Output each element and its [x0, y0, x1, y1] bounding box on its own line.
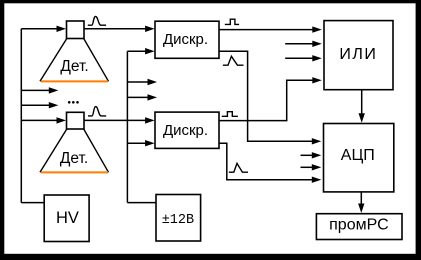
arrowhead ADC to PC down — [358, 204, 364, 214]
arrowhead OR in1 — [312, 26, 322, 32]
wire detector1 to discr1 — [84, 28, 147, 30]
analog pulse icon at discr1 analog output — [223, 56, 244, 65]
industrial PC box — [316, 214, 402, 240]
arrowhead ADC in2 — [312, 152, 322, 158]
wire bus to detector 2 — [21, 119, 58, 121]
wire bus to discr2 — [127, 142, 146, 144]
arrowhead OR in2 — [312, 41, 322, 47]
wire stub channel d — [127, 96, 149, 98]
detector2 cone right side — [84, 129, 109, 172]
wire +-12V bus to box — [127, 202, 156, 204]
discriminator 1 box — [155, 21, 219, 58]
ellipsis dots between detectors — [68, 101, 79, 104]
analog pulse icon at detector2 — [88, 107, 106, 116]
detector1 cone left side — [40, 39, 67, 82]
arrowhead stub b — [49, 102, 59, 108]
wire discr2 digital out to OR — [219, 80, 314, 120]
arrowhead stub c — [148, 79, 158, 85]
arrowhead stub a — [49, 87, 59, 93]
svg-text:АЦП: АЦП — [341, 147, 375, 164]
arrowhead OR in4 — [312, 77, 322, 83]
wire stub OR input b — [285, 57, 313, 59]
wire stub channel c — [127, 81, 149, 83]
wire bus to discr1 — [127, 50, 146, 52]
+-12V box — [156, 195, 201, 242]
wire stub ADC input b — [301, 166, 315, 168]
arrowhead into detector2 — [57, 117, 67, 123]
wire OR to ADC — [361, 90, 363, 114]
svg-text:±12В: ±12В — [162, 213, 194, 228]
arrowhead into detector1 — [57, 26, 67, 32]
svg-text:ИЛИ: ИЛИ — [339, 46, 377, 63]
arrowhead into discr2 in1 — [145, 117, 155, 123]
border frame left — [0, 0, 4, 260]
wire discr2 analog out to ADC — [219, 143, 315, 180]
arrowhead into discr2 in2 — [145, 140, 155, 146]
border frame bottom — [0, 254, 421, 260]
wire stub ADC input a — [301, 154, 315, 156]
arrowhead into discr1 in2 — [145, 48, 155, 54]
wire stub OR input a — [285, 43, 313, 45]
arrowhead OR to ADC down — [359, 113, 365, 123]
detector1 scintillator orange face — [41, 80, 108, 82]
arrowhead ADC in4 — [312, 177, 322, 183]
wire ADC to PC — [360, 192, 362, 204]
wire discr1 analog out to ADC — [219, 51, 315, 141]
svg-text:Дискр.: Дискр. — [163, 31, 208, 48]
wire bus to detector 1 — [21, 28, 58, 30]
OR box — [324, 21, 393, 90]
analog pulse icon at discr2 analog output — [229, 163, 248, 172]
wire stub channel b — [21, 104, 50, 106]
HV box — [44, 195, 89, 242]
discriminator 2 box — [155, 112, 219, 148]
arrowhead ADC in1 — [312, 138, 322, 144]
wire HV bus to HV box — [21, 202, 44, 204]
svg-text:Дискр.: Дискр. — [163, 122, 208, 139]
detector2 PMT square — [67, 112, 85, 129]
wire HV bus vertical — [20, 29, 22, 203]
svg-text:HV: HV — [56, 209, 79, 227]
wire stub channel a — [21, 89, 50, 91]
border frame right — [416, 0, 421, 260]
wire discr1 digital out to OR — [219, 29, 314, 31]
digital pulse icon at discr2 output — [222, 112, 238, 117]
wire detector2 to discr2 — [84, 119, 147, 121]
detector2 cone left side — [40, 129, 67, 172]
detector2 scintillator orange face — [41, 171, 108, 173]
arrowhead OR in3 — [312, 55, 322, 61]
detector1 cone right side — [84, 39, 109, 82]
arrowhead into discr1 in1 — [145, 26, 155, 32]
analog pulse icon at detector1 — [88, 16, 106, 25]
svg-text:Дет.: Дет. — [60, 150, 88, 167]
svg-text:промРС: промРС — [329, 217, 389, 234]
arrowhead ADC in3 — [312, 164, 322, 170]
wire +-12V bus vertical — [126, 51, 128, 202]
arrowhead stub d — [148, 94, 158, 100]
detector1 PMT square — [67, 21, 85, 39]
border frame top — [0, 0, 421, 3]
svg-text:Дет.: Дет. — [60, 58, 88, 75]
digital pulse icon at discr1 output — [225, 19, 239, 24]
ADC box — [324, 124, 394, 192]
